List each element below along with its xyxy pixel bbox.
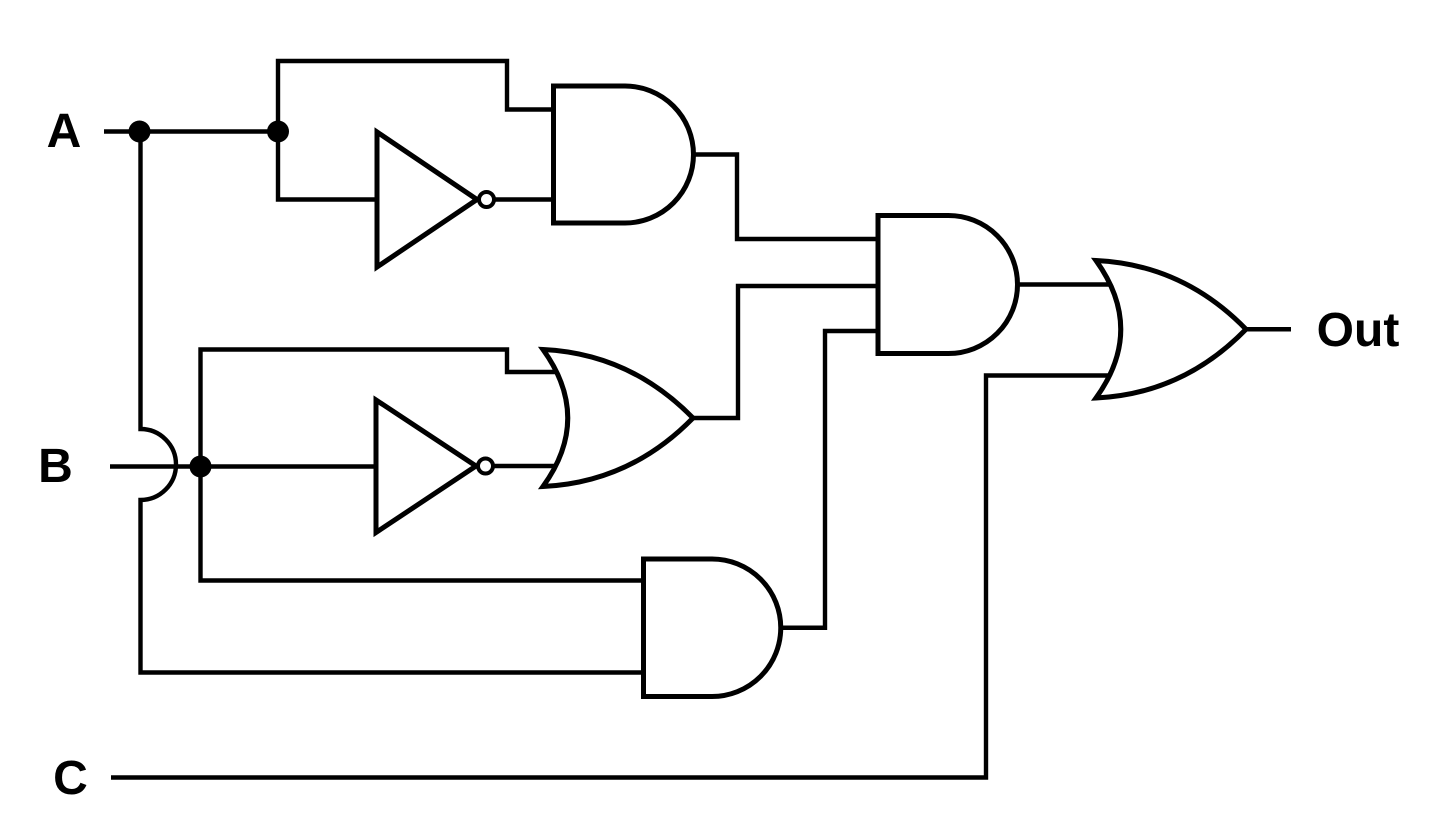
wire AND2 output to AND3 input 3 — [781, 331, 879, 628]
wire node A1 down with hop over B to AND2 input 2 — [141, 132, 647, 673]
wire node B to NOT2 input — [201, 464, 378, 468]
wire C to OR2 input 2 — [111, 376, 1113, 778]
svg-text:C: C — [53, 752, 88, 805]
wire AND3 output to OR2 input 1 — [1017, 282, 1113, 286]
wire node A2 down to NOT1 input — [278, 132, 378, 200]
wire AND1 output to AND3 input 1 — [694, 155, 880, 240]
wire A top rail to AND1 input 1 — [278, 61, 558, 132]
junction node A2 — [267, 121, 289, 143]
wire NOT1 output to AND1 input 2 — [494, 197, 556, 201]
wire A lead — [104, 129, 139, 133]
junction node B — [190, 456, 212, 478]
or-gate OR1 — [543, 350, 693, 487]
or-gate OR2 — [1096, 261, 1246, 399]
wire node B up to OR1 input 1 — [201, 350, 561, 467]
wire OR1 output to AND3 input 2 — [693, 286, 879, 418]
and-gate AND1 — [554, 86, 694, 223]
and-gate AND3 — [878, 216, 1018, 354]
wire NOT2 output to OR1 input 2 — [493, 464, 559, 468]
wire B lead — [110, 464, 201, 468]
wire OR2 output — [1246, 327, 1291, 331]
wire A to node A2 — [139, 129, 278, 133]
junction node A1 — [129, 121, 151, 143]
inverter NOT2 — [376, 400, 493, 533]
and-gate AND2 — [644, 559, 781, 697]
wire node B down to AND2 input 1 — [201, 467, 647, 581]
inverter NOT1 — [377, 132, 494, 267]
svg-text:B: B — [38, 440, 73, 493]
svg-text:A: A — [47, 105, 82, 158]
svg-text:Out: Out — [1317, 304, 1400, 357]
